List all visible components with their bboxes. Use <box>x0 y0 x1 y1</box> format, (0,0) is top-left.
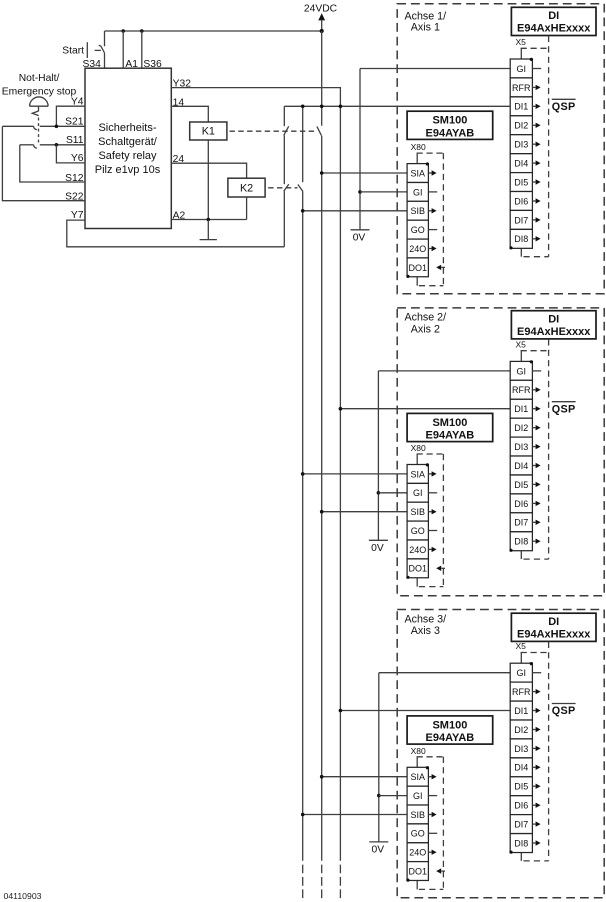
terminal label S22 <box>65 191 84 202</box>
svg-text:E94AYAB: E94AYAB <box>426 430 475 442</box>
wire S11 left segment <box>20 144 34 146</box>
svg-text:DI5: DI5 <box>514 177 528 187</box>
svg-text:04110903: 04110903 <box>4 891 42 901</box>
svg-text:DI7: DI7 <box>514 820 528 830</box>
axis 1 pin DI7 arrow <box>532 217 540 222</box>
axis 3 connector X80 label <box>411 746 426 756</box>
svg-text:E94AYAB: E94AYAB <box>426 732 475 744</box>
wire Y7 feedback return <box>67 220 284 247</box>
axis 3 pin DI6 arrow <box>532 803 540 808</box>
axis 1 connector X80 label <box>411 142 426 152</box>
axis 2 X80 pin dot bottom <box>406 576 409 579</box>
terminal label A2 <box>173 211 186 222</box>
start button contact <box>87 31 104 68</box>
terminal label Y32 <box>173 79 192 90</box>
wire S11 right segment <box>40 144 85 146</box>
axis 1 X5 strip bottom stub <box>520 248 522 256</box>
emergency stop mechanical link dashed <box>38 118 40 145</box>
K2 link dashed <box>268 187 297 189</box>
axis 1 connector X5 label <box>516 37 527 47</box>
wire Y32 output <box>171 88 340 107</box>
axis 2 X5 pin dot bottom <box>509 549 512 552</box>
svg-text:SM100: SM100 <box>432 719 467 731</box>
svg-text:DI8: DI8 <box>514 838 528 848</box>
svg-text:SIB: SIB <box>411 206 426 216</box>
axis 2 DI module box E94AxHExxxx <box>511 311 596 339</box>
svg-text:Axis 3: Axis 3 <box>411 625 440 637</box>
axis 1 pin GI tick <box>532 68 541 70</box>
wire top 24V feed to start circuit <box>105 30 322 32</box>
node A1/S36/24V junction dots <box>121 29 125 33</box>
svg-text:DO1: DO1 <box>409 263 428 273</box>
svg-text:SM100: SM100 <box>432 417 467 429</box>
rail SIB x302 dashed continuation <box>302 865 304 899</box>
axis 1 node SIB rail junction <box>301 209 305 213</box>
svg-text:GI: GI <box>413 791 423 801</box>
emergency stop label <box>19 73 60 84</box>
axis 1 pin SIB arrow <box>428 208 436 213</box>
rail feedback x284 lower <box>283 191 285 247</box>
svg-text:RFR: RFR <box>512 385 531 395</box>
axis 3 pin SIB arrow <box>428 812 436 817</box>
safety relay text <box>98 122 156 134</box>
svg-text:DI2: DI2 <box>514 423 528 433</box>
axis 1 pin RFR arrow <box>532 85 540 90</box>
svg-text:QSP: QSP <box>552 101 576 113</box>
axis 3 pin GI tick <box>532 672 541 674</box>
svg-text:DI5: DI5 <box>514 480 528 490</box>
axis 2 connector X80 lines <box>417 454 444 587</box>
svg-text:SIA: SIA <box>411 772 426 782</box>
axis 1 DI module box E94AxHExxxx <box>511 7 596 35</box>
svg-text:DI1: DI1 <box>514 404 528 414</box>
axis 3 dashed enclosure <box>397 610 604 898</box>
axis 1 pin DO1 arrow <box>436 265 445 270</box>
axis 3 connector X5 lines <box>521 642 549 861</box>
axis 2 pin GI tick <box>428 492 437 494</box>
axis 2 pin DI7 arrow <box>532 520 540 525</box>
wire 14 to K1 <box>171 106 208 122</box>
axis 3 X80 pin dot bottom <box>406 879 409 882</box>
rail feedback x284 upper <box>283 106 285 126</box>
axis 3 pin DI2 arrow <box>532 727 540 732</box>
axis 2 node GI-SM100 junction <box>377 491 381 495</box>
terminal label S12 <box>65 173 84 184</box>
terminal label S34 <box>82 59 101 70</box>
svg-text:DI6: DI6 <box>514 196 528 206</box>
start button S34 label <box>62 46 84 57</box>
axis 3 wire GI from 0V <box>379 672 510 674</box>
svg-text:Pilz e1vp 10s: Pilz e1vp 10s <box>95 164 161 176</box>
svg-text:X5: X5 <box>516 37 527 47</box>
wire 24 to K2 <box>171 163 246 178</box>
axis 3 node SIA rail junction <box>320 775 324 779</box>
svg-text:E94AxHExxxx: E94AxHExxxx <box>517 629 591 641</box>
24VDC arrow up <box>318 13 325 31</box>
emergency stop mushroom head <box>30 97 48 111</box>
safety relay box <box>85 68 171 228</box>
axis 3 SM100 box E94AYAB <box>407 716 493 744</box>
axis 3 pin DI8 arrow <box>532 840 540 845</box>
axis 2 pin DI8 arrow <box>532 539 540 544</box>
axis 3 pin GO tick <box>428 832 437 834</box>
svg-text:RFR: RFR <box>512 687 531 697</box>
ground symbol <box>200 220 217 240</box>
axis 1 wire SIB <box>303 210 407 212</box>
axis 1 X5 pin dot <box>530 58 533 61</box>
axis 1 pin DI8 arrow <box>532 236 540 241</box>
axis 1 pin DI4 arrow <box>532 160 540 165</box>
axis 1 X80 strip top stub <box>416 153 418 164</box>
axis 1 SM100 box E94AYAB <box>407 111 493 139</box>
svg-text:DI3: DI3 <box>514 140 528 150</box>
contact K1-SIA <box>317 127 322 136</box>
axis 2 connector X5 lines <box>521 339 549 559</box>
svg-text:GI: GI <box>413 488 423 498</box>
axis 2 pin DO1 arrow <box>436 566 445 571</box>
axis 1 pin 24O arrow <box>428 246 436 251</box>
axis 3 X80 pin dot <box>426 766 429 769</box>
svg-text:X80: X80 <box>411 746 426 756</box>
axis 3 DI module box E94AxHExxxx <box>511 613 596 641</box>
svg-text:Axis 2: Axis 2 <box>411 323 440 335</box>
wire K1 to A2 <box>207 140 209 220</box>
axis 2 title <box>405 311 447 323</box>
axis 3 wire DI1 QSP <box>340 710 510 712</box>
axis 2 X80 strip top stub <box>416 454 418 465</box>
axis 3 X80 terminal strip <box>407 767 428 880</box>
axis 2 X80 pin dot <box>426 463 429 466</box>
axis 2 pin DI2 arrow <box>532 425 540 430</box>
svg-text:0V: 0V <box>371 543 384 554</box>
axis 1 pin DI5 arrow <box>532 179 540 184</box>
axis 2 dashed enclosure <box>397 308 604 596</box>
axis 1 QSP label <box>552 99 576 113</box>
24VDC supply label <box>304 4 338 15</box>
wire S36 to top rail <box>141 31 143 68</box>
axis 3 X5 terminal strip <box>510 663 532 852</box>
axis 3 0V vertical <box>378 673 380 842</box>
emergency stop actuator chevron <box>32 111 38 116</box>
svg-text:Axis 1: Axis 1 <box>411 22 440 34</box>
axis 1 wire GI from 0V <box>360 68 510 70</box>
axis 3 title <box>405 613 447 625</box>
wire Y6 <box>56 145 85 163</box>
svg-text:Achse 3/: Achse 3/ <box>405 613 447 625</box>
wire S22 outer loop <box>2 126 85 200</box>
wire S12 inner loop <box>20 145 85 182</box>
svg-text:GO: GO <box>411 225 425 235</box>
axis 3 pin DI3 arrow <box>532 746 540 751</box>
svg-text:SIB: SIB <box>411 507 426 517</box>
axis 3 wire SIA <box>322 776 407 778</box>
terminal label Y4 <box>71 96 84 107</box>
axis 1 X80 pin dot bottom <box>406 275 409 278</box>
axis 3 X5 strip top stub <box>520 653 522 664</box>
axis 3 pin DO1 arrow <box>436 868 445 873</box>
svg-text:E94AYAB: E94AYAB <box>426 127 475 139</box>
axis 2 wire DI1 QSP <box>340 408 510 410</box>
axis 1 pin GI tick <box>428 191 437 193</box>
svg-text:24O: 24O <box>409 545 426 555</box>
node rail340 Y32 junction <box>339 105 343 109</box>
svg-text:Safety relay: Safety relay <box>98 150 157 162</box>
svg-text:DO1: DO1 <box>409 564 428 574</box>
terminal label Y7 <box>71 210 84 221</box>
svg-text:DI2: DI2 <box>514 121 528 131</box>
svg-text:DI: DI <box>548 616 559 628</box>
axis 2 pin RFR arrow <box>532 387 540 392</box>
axis 1 node SIA rail junction <box>320 171 324 175</box>
wire S21 left segment <box>2 125 33 127</box>
svg-text:0V: 0V <box>371 845 384 856</box>
axis 3 node GI-SM100 junction <box>377 794 381 798</box>
axis 2 connector X80 label <box>411 443 426 453</box>
svg-text:24O: 24O <box>409 848 426 858</box>
axis 2 node SIA rail junction <box>301 472 305 476</box>
axis 1 pin DI1 arrow <box>532 104 540 109</box>
svg-text:DI7: DI7 <box>514 518 528 528</box>
axis 2 pin DI6 arrow <box>532 501 540 506</box>
terminal label Y6 <box>71 153 84 164</box>
wire A2 <box>171 219 246 221</box>
contact K1-feedback <box>284 126 289 135</box>
svg-text:E94AxHExxxx: E94AxHExxxx <box>517 23 591 35</box>
contact K2-feedback <box>284 184 289 191</box>
svg-text:X5: X5 <box>516 641 527 651</box>
axis 1 pin DI2 arrow <box>532 123 540 128</box>
axis 3 pin DI1 arrow <box>532 708 540 713</box>
terminal label S11 <box>66 135 84 146</box>
axis 2 X5 strip top stub <box>520 351 522 362</box>
svg-text:GO: GO <box>411 829 425 839</box>
axis 3 X80 strip top stub <box>416 757 418 768</box>
svg-text:K2: K2 <box>240 182 253 194</box>
svg-text:QSP: QSP <box>552 705 576 717</box>
terminal label S21 <box>65 116 84 127</box>
document number <box>4 891 42 901</box>
svg-text:Achse 1/: Achse 1/ <box>405 10 447 22</box>
axis 2 wire GI from 0V <box>378 370 510 372</box>
rail QSP x340 dashed continuation <box>339 865 341 899</box>
svg-text:GI: GI <box>517 64 527 74</box>
svg-text:DI8: DI8 <box>514 234 528 244</box>
axis 1 connector X80 lines <box>417 153 444 286</box>
axis 3 connector X80 lines <box>417 757 444 890</box>
axis 2 pin DI3 arrow <box>532 444 540 449</box>
axis 3 pin 24O arrow <box>428 850 436 855</box>
svg-text:GO: GO <box>411 526 425 536</box>
axis 2 X5 strip bottom stub <box>520 551 522 559</box>
svg-text:GI: GI <box>413 187 423 197</box>
K1 link dashed <box>230 130 318 132</box>
axis 3 pin DI7 arrow <box>532 821 540 826</box>
wire Y4 <box>56 106 85 126</box>
terminal label 24 <box>173 154 185 165</box>
svg-text:DI: DI <box>548 10 559 22</box>
estop contact 1 <box>34 126 37 129</box>
rail 24V x321 upper <box>321 31 323 126</box>
axis 3 pin GI tick <box>428 795 437 797</box>
wire A1 to top rail <box>122 31 124 68</box>
axis 3 X5 pin dot <box>530 662 533 665</box>
axis 3 X5 strip bottom stub <box>520 853 522 861</box>
axis 3 pin DI5 arrow <box>532 784 540 789</box>
contact K2-SIB <box>298 185 303 192</box>
svg-text:DI: DI <box>548 313 559 325</box>
axis 3 pin SIA arrow <box>428 774 436 779</box>
axis 2 pin DI5 arrow <box>532 482 540 487</box>
node A2/K1 junction <box>207 218 211 222</box>
axis 3 node SIB rail junction <box>301 813 305 817</box>
axis 1 0V symbol <box>351 229 370 231</box>
svg-text:DI4: DI4 <box>514 461 528 471</box>
axis 2 pin DI1 arrow <box>532 406 540 411</box>
svg-text:DI4: DI4 <box>514 159 528 169</box>
svg-text:SIA: SIA <box>411 469 426 479</box>
wire K2 to A2 <box>246 197 248 220</box>
svg-text:GI: GI <box>517 668 527 678</box>
axis 2 QSP label <box>552 402 576 416</box>
axis 3 X5 pin dot bottom <box>509 851 512 854</box>
axis 2 wire SIB <box>322 511 407 513</box>
axis 2 node DI1 rail junction <box>339 407 343 411</box>
svg-text:Sicherheits-: Sicherheits- <box>98 122 156 134</box>
terminal label 14 <box>173 97 185 108</box>
svg-text:DI6: DI6 <box>514 499 528 509</box>
axis 3 wire GI SM100 <box>379 795 407 797</box>
axis 1 X80 strip bottom stub <box>416 277 418 286</box>
axis 2 X80 strip bottom stub <box>416 578 418 587</box>
terminal label S36 <box>143 59 162 70</box>
svg-text:Not-Halt/: Not-Halt/ <box>19 73 60 84</box>
axis 2 wire GI SM100 <box>378 492 407 494</box>
svg-text:SIB: SIB <box>411 810 426 820</box>
axis 3 node DI1 rail junction <box>339 709 343 713</box>
relay coil K2 <box>228 178 265 197</box>
axis 1 wire SIA <box>322 172 407 174</box>
svg-text:K1: K1 <box>202 125 215 137</box>
axis 2 X5 pin dot <box>530 360 533 363</box>
svg-text:DI2: DI2 <box>514 725 528 735</box>
axis 2 pin GO tick <box>428 530 437 532</box>
rail QSP x340 <box>339 106 341 861</box>
axis 1 X5 terminal strip <box>510 59 532 248</box>
wire S21 right segment <box>40 125 85 127</box>
axis 1 dashed enclosure <box>397 4 604 294</box>
svg-text:RFR: RFR <box>512 83 531 93</box>
svg-text:DI1: DI1 <box>514 706 528 716</box>
axis 3 QSP label <box>552 704 576 718</box>
relay coil K1 <box>190 122 227 140</box>
svg-text:SM100: SM100 <box>432 115 467 127</box>
svg-text:DI3: DI3 <box>514 744 528 754</box>
svg-text:DI5: DI5 <box>514 782 528 792</box>
svg-text:DI3: DI3 <box>514 442 528 452</box>
estop contact 2 <box>34 145 37 148</box>
svg-text:Emergency stop: Emergency stop <box>2 87 77 98</box>
svg-text:DI6: DI6 <box>514 801 528 811</box>
axis 1 X5 strip top stub <box>520 48 522 59</box>
svg-text:E94AxHExxxx: E94AxHExxxx <box>517 326 591 338</box>
rail SIB x302 upper <box>302 106 304 182</box>
axis 2 0V vertical <box>377 371 379 540</box>
svg-text:X80: X80 <box>411 142 426 152</box>
axis 1 node GI-SM100 junction <box>358 190 362 194</box>
svg-text:DO1: DO1 <box>409 867 428 877</box>
axis 2 node SIB rail junction <box>320 510 324 514</box>
axis 2 pin GI tick <box>532 370 541 372</box>
axis 2 X80 terminal strip <box>407 465 428 578</box>
node rail302 top <box>301 105 305 109</box>
axis 1 X80 pin dot <box>426 162 429 165</box>
terminal label A1 <box>125 59 138 70</box>
svg-text:Achse 2/: Achse 2/ <box>405 311 447 323</box>
axis 3 pin DI4 arrow <box>532 765 540 770</box>
axis 2 pin DI4 arrow <box>532 463 540 468</box>
rail 24V x321 dashed continuation <box>321 865 323 899</box>
axis 2 0V symbol <box>369 539 388 541</box>
axis 2 pin SIA arrow <box>428 471 436 476</box>
axis 1 X80 terminal strip <box>407 164 428 277</box>
axis 1 pin GO tick <box>428 229 437 231</box>
axis 3 wire SIB <box>303 814 407 816</box>
svg-text:SIA: SIA <box>411 168 426 178</box>
axis 3 pin RFR arrow <box>532 689 540 694</box>
axis 1 wire GI SM100 <box>360 191 407 193</box>
svg-text:DI4: DI4 <box>514 763 528 773</box>
svg-text:X5: X5 <box>516 339 527 349</box>
axis 2 wire SIA <box>303 473 407 475</box>
axis 1 pin SIA arrow <box>428 170 436 175</box>
axis 2 SM100 box E94AYAB <box>407 413 493 441</box>
svg-text:DI7: DI7 <box>514 215 528 225</box>
svg-text:Schaltgerät/: Schaltgerät/ <box>98 136 158 148</box>
axis 3 connector X5 label <box>516 641 527 651</box>
svg-text:Start: Start <box>62 46 84 57</box>
rail 24V x321 lower <box>321 136 323 861</box>
axis 1 pin DI3 arrow <box>532 142 540 147</box>
node S11/Y6 junction <box>55 143 59 147</box>
axis 1 0V vertical <box>359 69 361 230</box>
svg-text:24VDC: 24VDC <box>304 4 338 15</box>
svg-text:DI1: DI1 <box>514 102 528 112</box>
node rail321 QSP junction <box>320 105 324 109</box>
axis 2 pin 24O arrow <box>428 547 436 552</box>
svg-text:QSP: QSP <box>552 403 576 415</box>
node S21/Y4 junction <box>55 125 59 129</box>
rail feedback x284 middle <box>283 136 285 185</box>
axis 1 title <box>405 10 447 22</box>
axis 1 connector X5 lines <box>521 36 549 257</box>
wire QSP main (DI1 axis1) <box>284 105 510 107</box>
rail SIB x302 lower <box>302 191 304 860</box>
axis 3 X80 strip bottom stub <box>416 881 418 890</box>
svg-text:DI8: DI8 <box>514 537 528 547</box>
svg-text:24O: 24O <box>409 244 426 254</box>
svg-text:GI: GI <box>517 366 527 376</box>
axis 2 X5 terminal strip <box>510 361 532 550</box>
axis 2 connector X5 label <box>516 339 527 349</box>
axis 1 pin DI6 arrow <box>532 198 540 203</box>
svg-text:0V: 0V <box>353 232 366 243</box>
svg-text:X80: X80 <box>411 443 426 453</box>
axis 1 X5 pin dot bottom <box>509 246 512 249</box>
axis 3 0V symbol <box>369 841 388 843</box>
axis 2 pin SIB arrow <box>428 509 436 514</box>
